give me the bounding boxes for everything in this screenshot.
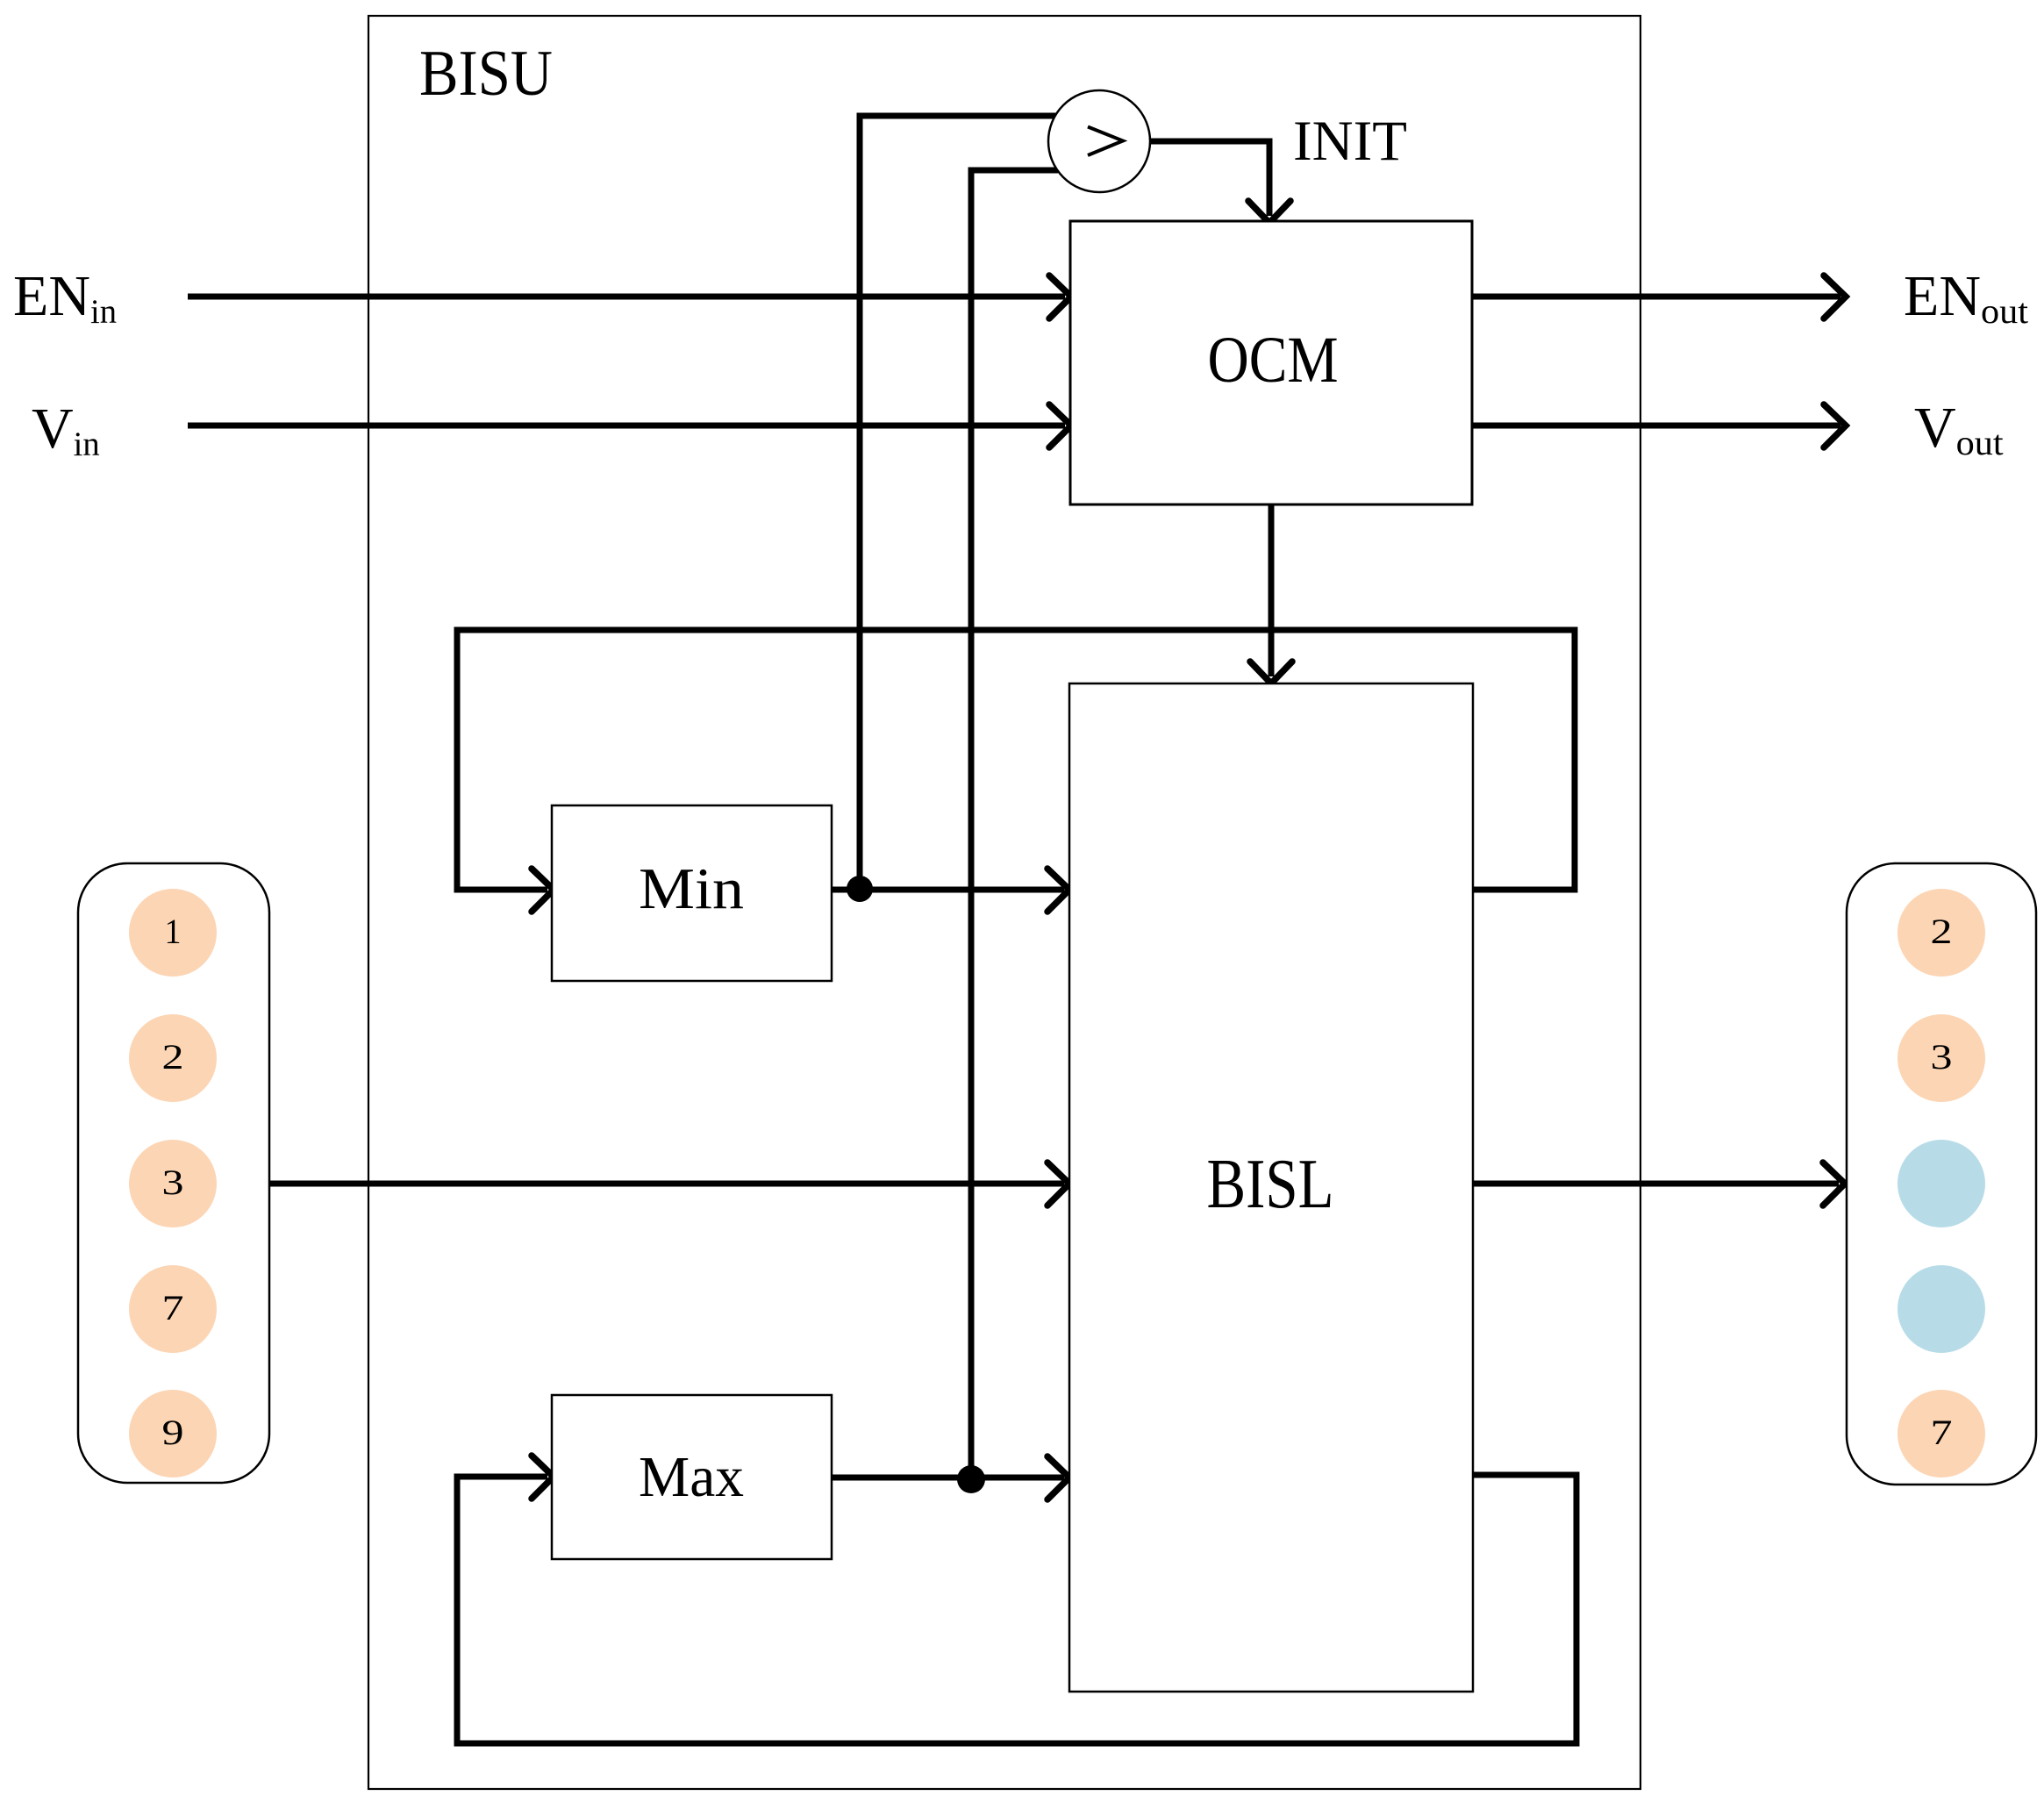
svg-text:9: 9 xyxy=(162,1413,184,1452)
svg-text:Min: Min xyxy=(639,856,744,921)
svg-text:BISL: BISL xyxy=(1207,1146,1334,1223)
svg-text:2: 2 xyxy=(1931,912,1953,951)
svg-text:INIT: INIT xyxy=(1293,110,1407,173)
svg-text:3: 3 xyxy=(162,1163,184,1202)
svg-text:1: 1 xyxy=(165,912,182,951)
svg-text:2: 2 xyxy=(162,1037,184,1077)
svg-text:OCM: OCM xyxy=(1208,324,1339,397)
svg-text:3: 3 xyxy=(1931,1037,1953,1077)
svg-text:Max: Max xyxy=(639,1445,744,1509)
svg-text:7: 7 xyxy=(1931,1413,1953,1452)
svg-text:BISU: BISU xyxy=(419,38,553,110)
svg-text:7: 7 xyxy=(162,1288,184,1327)
